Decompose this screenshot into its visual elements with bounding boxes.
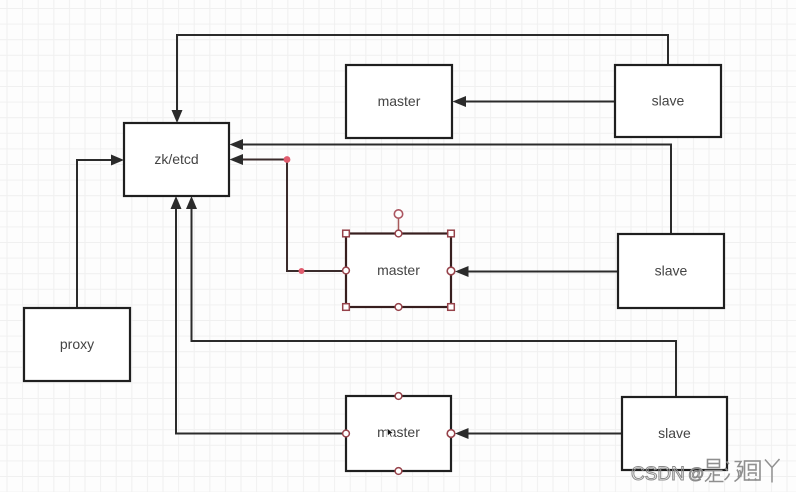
corner handle M2 bottom-right <box>448 304 455 311</box>
connection point M3 bottom <box>395 468 402 475</box>
waypoint dot lower <box>299 268 305 274</box>
midpoint handle M2 top <box>395 230 402 237</box>
corner handle M2 top-right <box>448 230 455 237</box>
arrowhead into zk left <box>111 155 124 166</box>
svg-text:zk/etcd: zk/etcd <box>154 151 198 167</box>
rotation handle stem M2 <box>398 218 400 234</box>
svg-text:master: master <box>378 93 421 109</box>
svg-text:slave: slave <box>658 425 691 441</box>
wire master2 to zk/etcd (selected edge) <box>241 160 346 272</box>
node master M1 <box>346 65 452 138</box>
arrowhead into master3 right <box>455 428 469 439</box>
watermark glyph 是 <box>705 460 724 482</box>
node master M3 (hover) <box>346 396 451 471</box>
connection point M3 right <box>447 430 455 438</box>
wire slave2 to master2 <box>467 271 618 273</box>
wire slave3 to master3 <box>467 433 622 435</box>
arrowhead into zk right upper <box>230 139 244 150</box>
node slave S2 <box>618 234 724 308</box>
arrowhead into zk top <box>172 110 183 123</box>
arrowhead into master2 right <box>455 266 469 277</box>
arrowhead into master1 right <box>453 96 467 107</box>
corner handle M2 bottom-left <box>343 304 350 311</box>
corner handle M2 top-left <box>343 230 350 237</box>
watermark glyph 丫 <box>765 459 780 483</box>
svg-text:slave: slave <box>652 93 685 109</box>
wire slave1 to zk/etcd (top route) <box>177 35 668 111</box>
svg-text:slave: slave <box>655 263 688 279</box>
wire slave2 to zk/etcd (mid route) <box>241 145 671 235</box>
arrowhead into zk bottom left <box>171 196 182 209</box>
arrowhead into zk right lower <box>230 154 244 165</box>
node master M2 (selected) <box>346 234 451 308</box>
arrowhead into zk bottom right <box>186 196 197 209</box>
svg-text:CSDN: CSDN <box>631 464 685 485</box>
connection point M3 top <box>395 393 402 400</box>
node slave S1 <box>615 65 721 137</box>
mouse cursor <box>387 428 394 438</box>
node proxy <box>24 308 130 381</box>
node slave S3 <box>622 397 727 470</box>
wire master3 to zk/etcd <box>176 208 346 434</box>
midpoint handle M2 right <box>447 267 455 275</box>
waypoint dot upper <box>284 156 291 163</box>
watermark glyph 汤 <box>725 462 743 482</box>
wire slave1 to master1 <box>465 101 615 103</box>
svg-text:master: master <box>377 262 420 278</box>
midpoint handle M2 left <box>343 267 350 274</box>
wire slave3 to zk/etcd <box>192 208 677 397</box>
svg-text:proxy: proxy <box>60 336 94 352</box>
connection point M3 left <box>343 430 350 437</box>
wire proxy to zk/etcd <box>77 160 112 308</box>
midpoint handle M2 bottom <box>395 304 402 311</box>
svg-text:master: master <box>377 424 420 440</box>
rotation handle M2 <box>394 210 402 218</box>
watermark glyph 圆 <box>745 461 761 481</box>
node zk/etcd <box>124 123 229 196</box>
svg-text:@: @ <box>688 466 704 483</box>
